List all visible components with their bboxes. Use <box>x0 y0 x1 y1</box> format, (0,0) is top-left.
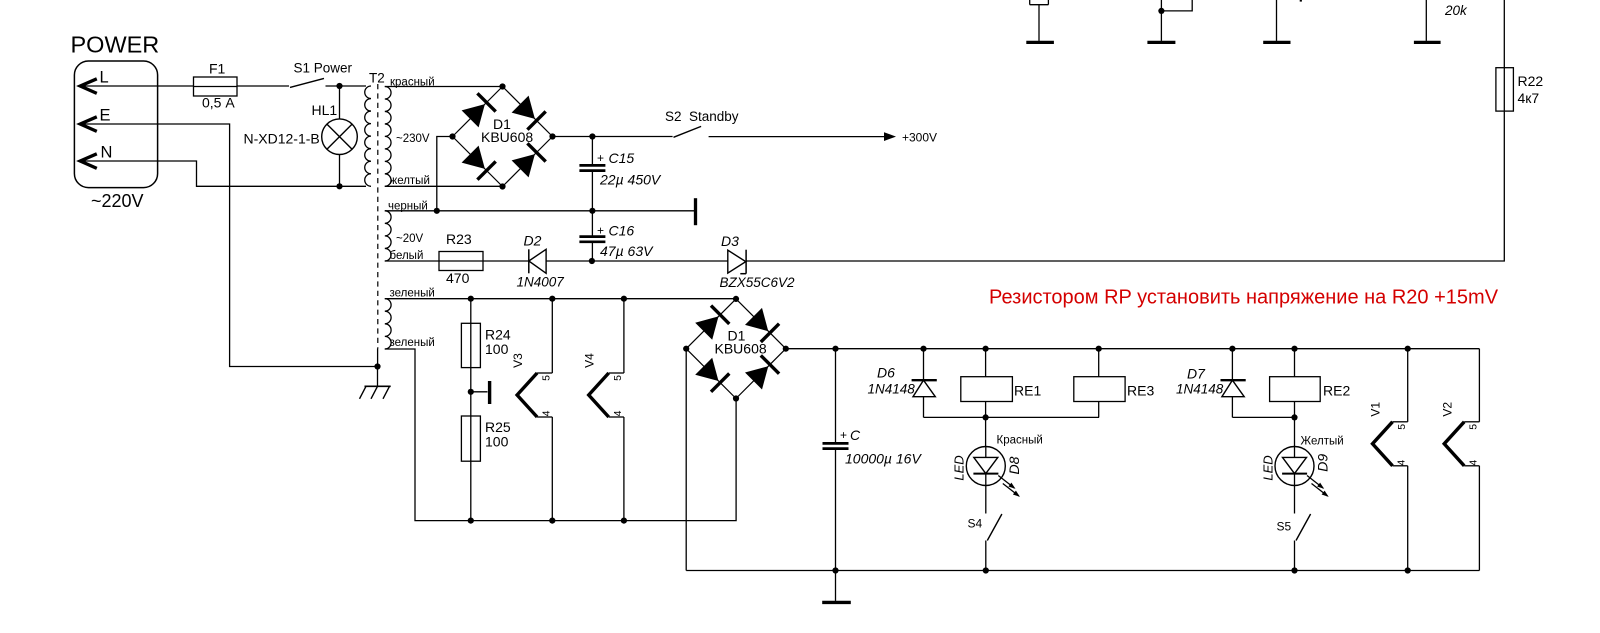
node <box>983 567 989 573</box>
wire черный <box>385 210 694 212</box>
tube heater V4 pins 5-4 <box>583 296 627 524</box>
svg-text:5: 5 <box>541 375 553 381</box>
svg-text:V4: V4 <box>583 353 597 368</box>
svg-text:4: 4 <box>1396 460 1408 466</box>
wire bottom rail <box>686 570 1479 572</box>
fuse F1 0,5 A <box>194 61 238 111</box>
wire <box>237 85 289 87</box>
svg-text:зеленый: зеленый <box>390 288 435 300</box>
ground <box>1414 41 1441 44</box>
svg-text:Резистором RP установить напря: Резистором RP установить напряжение на R… <box>989 287 1499 309</box>
node R24 top <box>468 296 474 302</box>
svg-text:T2: T2 <box>369 71 385 86</box>
svg-text:зеленый: зеленый <box>390 337 435 349</box>
wire R24-R25 <box>470 368 472 416</box>
svg-text:RE2: RE2 <box>1323 383 1350 399</box>
LED D8 Красный <box>952 417 1043 497</box>
svg-text:47µ 63V: 47µ 63V <box>600 243 654 259</box>
wire +300V with arrow <box>709 131 937 145</box>
svg-text:0,5 А: 0,5 А <box>202 95 235 111</box>
capacitor C 10000µ 16V <box>823 346 923 571</box>
svg-text:L: L <box>100 69 109 87</box>
wire bridge+ to S2 <box>553 136 673 138</box>
node <box>1291 567 1297 573</box>
resistor R22 4к7 <box>1496 0 1543 111</box>
svg-text:5: 5 <box>1468 424 1480 430</box>
wire зеленый bottom <box>385 349 736 521</box>
svg-text:~230V: ~230V <box>396 133 430 145</box>
svg-text:LED: LED <box>952 455 967 480</box>
wire <box>326 85 367 87</box>
diode D6 1N4148 <box>868 346 937 418</box>
svg-text:белый: белый <box>390 250 424 262</box>
earth ground <box>360 363 391 398</box>
svg-text:Красный: Красный <box>997 435 1043 447</box>
svg-text:4к7: 4к7 <box>1518 90 1540 106</box>
svg-text:1N4148: 1N4148 <box>868 382 916 397</box>
diode D2 1N4007 <box>517 233 565 290</box>
node C15 top <box>589 133 595 139</box>
svg-text:V2: V2 <box>1440 402 1454 417</box>
capacitor C16 47µ 63V <box>579 211 654 261</box>
svg-text:~220V: ~220V <box>91 191 144 211</box>
svg-text:+300V: +300V <box>902 131 937 145</box>
svg-text:RE3: RE3 <box>1127 383 1154 399</box>
wire relay1 bottom <box>924 414 1100 420</box>
node <box>434 208 440 214</box>
svg-text:HL1: HL1 <box>312 102 338 118</box>
svg-text:POWER: POWER <box>71 32 160 58</box>
svg-text:5: 5 <box>612 375 624 381</box>
switch S5 <box>1277 486 1311 571</box>
node HL1 bottom <box>336 183 342 189</box>
resistor R24 100 <box>461 299 510 368</box>
diode D7 1N4148 <box>1176 346 1246 418</box>
terminal bar <box>471 381 490 404</box>
zener D3 BZX55C6V2 <box>720 233 796 290</box>
tube heater V2 pins 5-4 <box>1440 349 1479 571</box>
svg-text:E: E <box>100 107 111 125</box>
connector POWER ~220V with pins L E N <box>71 32 160 212</box>
wire L <box>82 85 194 87</box>
wire E <box>84 124 378 367</box>
node R25 bottom <box>468 518 474 524</box>
svg-text:KBU608: KBU608 <box>715 341 767 357</box>
node S1/HL1 <box>336 83 342 89</box>
svg-text:22µ 450V: 22µ 450V <box>599 172 662 188</box>
wire красный <box>385 86 503 88</box>
svg-text:C15: C15 <box>609 150 635 166</box>
svg-text:D8: D8 <box>1006 456 1022 474</box>
wire relay2 bottom <box>1232 414 1297 420</box>
svg-text:+: + <box>597 224 604 238</box>
svg-text:желтый: желтый <box>390 175 430 187</box>
wire bridge- to bottom rail <box>685 349 687 571</box>
note text <box>989 287 1499 309</box>
svg-text:BZX55C6V2: BZX55C6V2 <box>720 275 796 290</box>
svg-text:D7: D7 <box>1187 366 1206 382</box>
resistor R23 470 <box>439 231 483 286</box>
resistor fragment (cut off at top) <box>1030 0 1049 41</box>
ground <box>822 567 851 602</box>
wire to R22 <box>746 111 1504 261</box>
node C16 bottom <box>589 258 595 264</box>
svg-text:100: 100 <box>485 434 509 450</box>
svg-text:D9: D9 <box>1315 454 1331 472</box>
svg-text:C: C <box>850 427 861 443</box>
svg-text:S2 Standby: S2 Standby <box>665 109 739 124</box>
tube heater V1 pins 5-4 <box>1369 346 1411 574</box>
transformer T2 <box>365 71 435 367</box>
bridge rectifier D1 KBU608 (heater DC) <box>683 296 789 402</box>
svg-text:D2: D2 <box>524 233 542 249</box>
wire N <box>84 161 366 186</box>
svg-text:V3: V3 <box>511 353 525 368</box>
wire желтый <box>385 185 503 187</box>
ground <box>1147 41 1175 44</box>
svg-text:4: 4 <box>612 410 624 416</box>
bridge rectifier D1 KBU608 (mains) <box>449 83 555 189</box>
svg-text:S1 Power: S1 Power <box>294 61 353 76</box>
svg-text:+: + <box>840 428 847 442</box>
svg-text:4: 4 <box>541 410 553 416</box>
switch S4 <box>968 486 1002 571</box>
svg-text:D3: D3 <box>721 233 739 249</box>
tube heater V3 pins 5-4 <box>511 296 555 524</box>
resistor R25 100 <box>461 416 510 521</box>
wire белый <box>385 260 439 262</box>
svg-text:20k: 20k <box>1444 3 1468 18</box>
svg-text:R22: R22 <box>1518 73 1544 89</box>
relay RE3 <box>1074 346 1155 418</box>
svg-text:LED: LED <box>1260 455 1275 480</box>
svg-text:+: + <box>597 151 604 165</box>
svg-text:N-XD12-1-B: N-XD12-1-B <box>244 131 320 147</box>
svg-text:C16: C16 <box>609 223 635 239</box>
wire + rail <box>786 348 1480 350</box>
ground <box>1026 41 1054 44</box>
svg-text:V1: V1 <box>1369 402 1383 417</box>
lamp HL1 N-XD12-1-B <box>244 86 358 186</box>
svg-text:R23: R23 <box>446 231 472 247</box>
wire <box>546 260 728 262</box>
svg-text:470: 470 <box>446 270 470 286</box>
relay RE2 <box>1270 346 1351 418</box>
svg-text:S4: S4 <box>968 517 983 531</box>
svg-text:RE1: RE1 <box>1014 383 1041 399</box>
relay RE1 <box>961 346 1042 418</box>
terminal bar <box>694 198 697 225</box>
capacitor C15 22µ 450V <box>579 137 661 211</box>
svg-text:D6: D6 <box>877 365 895 381</box>
svg-text:~20V: ~20V <box>396 233 424 245</box>
wire зеленый top rail <box>385 298 736 300</box>
svg-text:KBU608: KBU608 <box>481 129 533 145</box>
svg-text:1N4007: 1N4007 <box>517 275 565 290</box>
svg-text:10000µ 16V: 10000µ 16V <box>845 451 922 467</box>
node <box>589 208 595 214</box>
ground <box>1263 41 1290 44</box>
svg-text:5: 5 <box>1396 424 1408 430</box>
svg-text:S5: S5 <box>1277 520 1292 534</box>
svg-text:N: N <box>101 144 113 162</box>
svg-text:F1: F1 <box>209 61 226 77</box>
svg-text:1N4148: 1N4148 <box>1176 382 1224 397</box>
wire <box>483 260 529 262</box>
wire with tap <box>1158 0 1192 41</box>
LED D9 Желтый <box>1260 417 1343 497</box>
potentiometer 20k wire <box>1426 0 1468 41</box>
switch S2 Standby <box>665 109 739 137</box>
switch S1 Power <box>290 61 353 88</box>
svg-text:4: 4 <box>1467 460 1479 466</box>
wire bridge- to черный <box>437 137 453 211</box>
svg-text:100: 100 <box>485 341 509 357</box>
svg-text:Желтый: Желтый <box>1301 436 1344 448</box>
wire <box>1277 0 1301 41</box>
node center tap <box>468 389 474 395</box>
